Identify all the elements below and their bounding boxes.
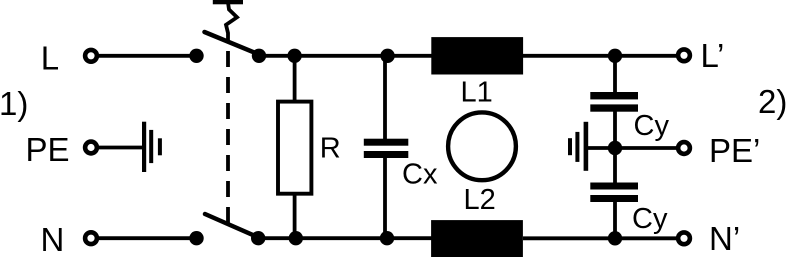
wire Cx bottom lead (383, 157, 387, 238)
svg-text:1): 1) (0, 85, 28, 122)
svg-text:L: L (41, 40, 59, 77)
terminal L (85, 50, 97, 62)
wire Cx top lead (383, 56, 387, 140)
svg-text:N: N (41, 221, 65, 257)
node PE' (608, 141, 622, 155)
wire bottom rail switch to L2 (258, 236, 433, 240)
svg-text:L’: L’ (701, 37, 725, 74)
switch blade S1b (205, 214, 259, 238)
node Cx top (380, 49, 394, 63)
mechanical link dashed (226, 51, 230, 224)
terminal L' (678, 49, 690, 61)
capacitor Cx (364, 139, 409, 158)
inductor L1 (431, 37, 523, 74)
wire top rail switch to L1 (259, 54, 433, 58)
switch actuator bar (213, 0, 243, 4)
wire resistor bottom lead (293, 194, 297, 238)
wire PE' node to terminal (615, 146, 677, 150)
capacitor Cy2 (590, 183, 638, 203)
svg-text:L1: L1 (461, 76, 493, 108)
wire top rail L1 to L' (523, 54, 677, 58)
inductor L2 (431, 220, 523, 257)
svg-text:Cx: Cx (402, 159, 438, 191)
resistor R (278, 102, 311, 194)
node switch input N (189, 231, 203, 245)
ground PE (142, 122, 162, 172)
node resistor bottom (289, 231, 303, 245)
terminal N (85, 232, 97, 244)
wire Cy2 bottom lead (613, 200, 617, 238)
svg-text:PE: PE (26, 131, 70, 168)
terminal PE (85, 142, 97, 154)
terminal N' (678, 232, 690, 244)
wire N to switch (99, 236, 197, 240)
svg-text:PE’: PE’ (709, 132, 760, 169)
svg-text:2): 2) (758, 83, 787, 120)
wire Cy1 to Cy2 (613, 110, 617, 184)
wire resistor top lead (293, 56, 297, 102)
wire bottom rail L2 to N' (523, 236, 677, 240)
node resistor top (287, 49, 301, 63)
ground PE' (568, 122, 615, 171)
svg-text:Cy: Cy (634, 110, 670, 142)
svg-text:Cy: Cy (632, 203, 668, 235)
capacitor Cy1 (590, 92, 638, 112)
node Cy1 top (608, 49, 622, 63)
actuator spring zigzag (226, 3, 237, 43)
wire L to switch (99, 54, 197, 58)
wire Cy1 top lead (613, 56, 617, 94)
switch blade S1a (205, 32, 260, 55)
choke core circle (448, 112, 516, 180)
wire PE to ground (99, 146, 143, 150)
svg-text:L2: L2 (464, 184, 496, 216)
node Cy2 bottom (608, 231, 622, 245)
node switch input L (189, 49, 203, 63)
node switch output L (252, 49, 266, 63)
svg-text:N’: N’ (709, 220, 740, 257)
node Cx bottom (380, 231, 394, 245)
node switch output N (251, 231, 265, 245)
terminal PE' (678, 142, 690, 154)
svg-text:R: R (320, 132, 341, 164)
